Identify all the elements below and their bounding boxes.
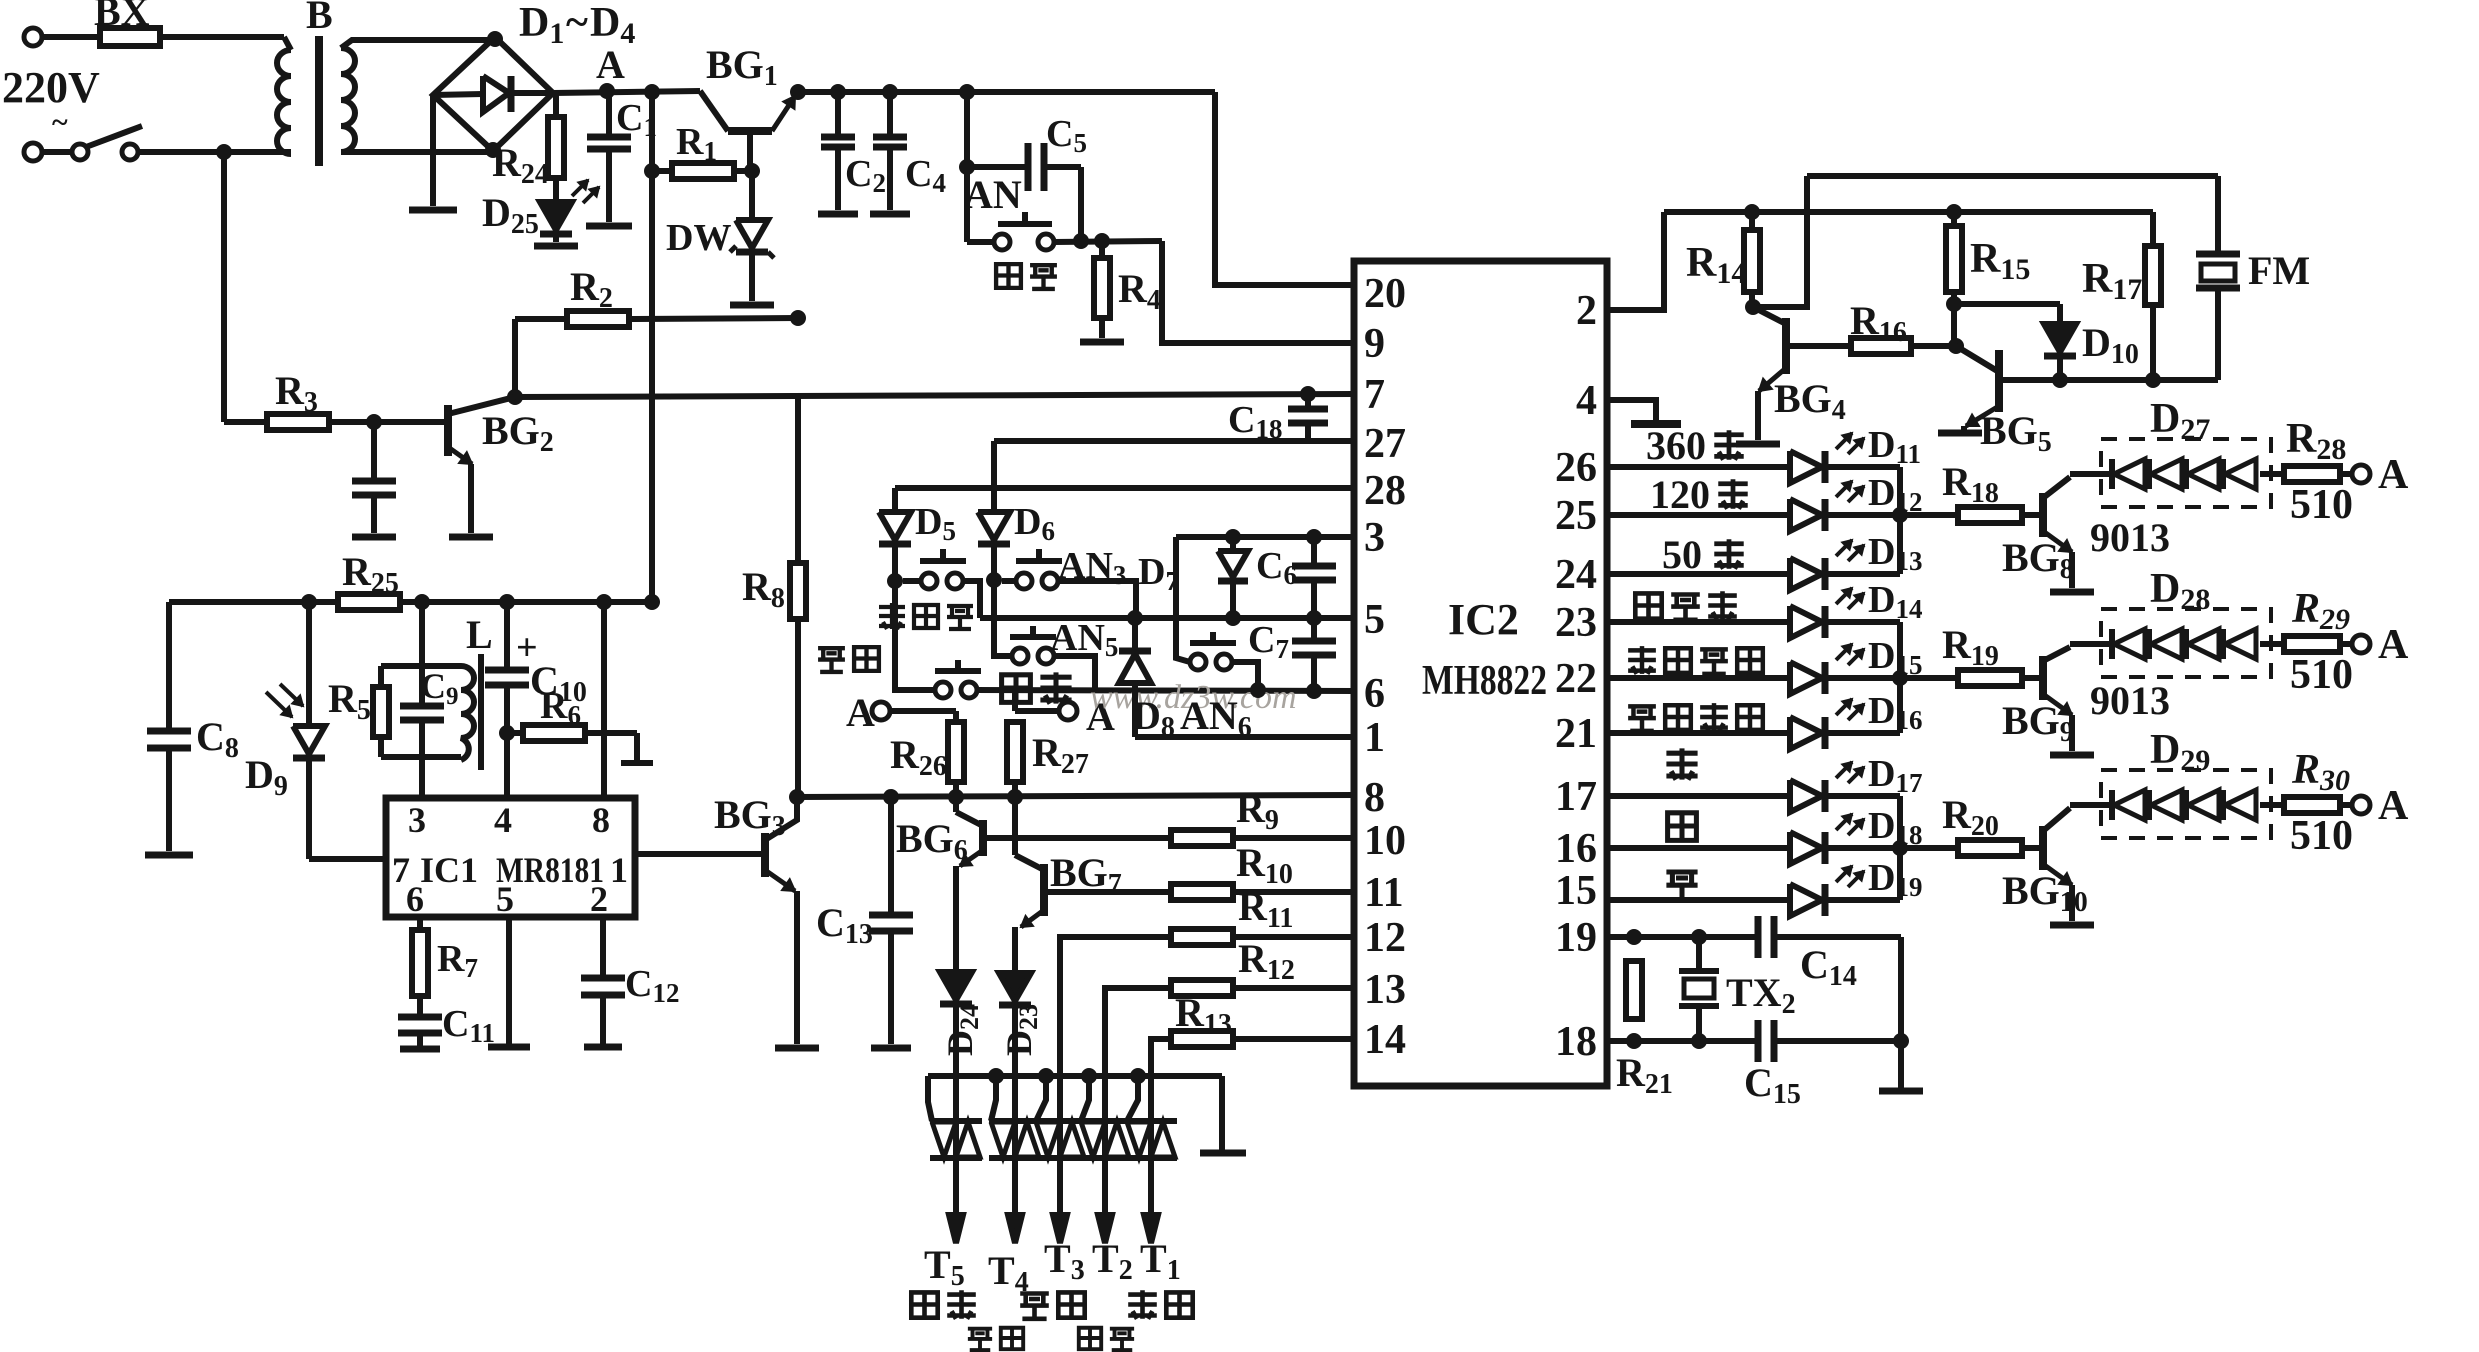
transistor BG1	[728, 127, 772, 135]
svg-text:IC2: IC2	[1448, 595, 1519, 644]
svg-text:A: A	[2378, 622, 2409, 668]
triac T1	[1125, 1118, 1177, 1124]
svg-text:1: 1	[610, 850, 628, 890]
output arrow T1	[1148, 1158, 1154, 1218]
wire R14 to FM rail	[1745, 299, 1761, 315]
transistor BG4	[1753, 307, 1786, 324]
resistor R14	[1744, 204, 1760, 220]
wire rail to pin8 IC1	[596, 594, 612, 610]
svg-text:FM: FM	[2248, 248, 2310, 293]
svg-text:220V: 220V	[2, 63, 100, 112]
capacitor C6	[1306, 529, 1322, 545]
ground R6	[634, 733, 640, 760]
LED D19	[1790, 884, 1822, 916]
crystal FM	[2215, 176, 2221, 252]
svg-text:BX: BX	[94, 0, 150, 34]
svg-text:17: 17	[1555, 774, 1597, 820]
svg-text:23: 23	[1555, 600, 1597, 646]
svg-text:3: 3	[408, 800, 426, 840]
resistor R9	[984, 835, 1171, 841]
svg-text:28: 28	[1364, 468, 1406, 514]
label 摇头	[818, 648, 845, 672]
ground IC1 pin5	[506, 917, 512, 1044]
transistor BG10	[2039, 826, 2047, 870]
node D5 bottom	[887, 573, 903, 589]
resistor R21	[1626, 961, 1642, 1019]
wire pin2	[1607, 212, 1664, 310]
svg-text:21: 21	[1555, 711, 1597, 757]
label 中风	[1079, 1328, 1101, 1349]
resistor R3	[221, 152, 227, 422]
label 睡眠风	[1635, 593, 1661, 618]
tank R5	[414, 594, 430, 610]
resistor R6	[507, 730, 526, 736]
svg-text:7: 7	[1364, 372, 1385, 418]
output arrow T3	[1057, 1158, 1063, 1218]
wire box left vertical	[1176, 537, 1190, 662]
wire pin7 rail	[515, 394, 1354, 397]
LED D15	[1790, 662, 1822, 694]
diode D5	[892, 488, 898, 512]
svg-text:9: 9	[1364, 321, 1385, 367]
ground BG4	[1736, 441, 1780, 448]
node R17 bottom	[2145, 372, 2161, 388]
label 摇头	[968, 1329, 992, 1350]
wire right vertical	[1898, 937, 1904, 1041]
wire +V rail top	[553, 91, 700, 93]
wire pin row	[1607, 571, 1790, 577]
svg-text:MH8822: MH8822	[1422, 658, 1547, 704]
resistor R29	[2260, 641, 2284, 647]
resistor R16	[1851, 338, 1911, 354]
ground BG10	[2050, 922, 2094, 929]
node R15 bottom	[1946, 296, 1962, 312]
terminal A	[2352, 635, 2370, 653]
svg-text:A: A	[2378, 452, 2409, 498]
resistor R27	[1007, 722, 1023, 782]
LED D18	[1790, 832, 1822, 864]
svg-text:510: 510	[2290, 652, 2353, 698]
diode D8	[1132, 618, 1138, 651]
terminal A	[2352, 796, 2370, 814]
label 强周期风	[1628, 706, 1656, 731]
svg-text:15: 15	[1555, 868, 1597, 914]
transistor BG8	[2039, 493, 2047, 537]
wire pin3	[1176, 534, 1354, 540]
wire to pin 9	[1162, 241, 1354, 343]
capacitor C10	[499, 594, 515, 610]
svg-text:2: 2	[590, 879, 608, 919]
ground cap R3	[352, 534, 396, 541]
svg-text:A: A	[846, 690, 875, 735]
diode D6	[991, 441, 997, 512]
wire pin27	[994, 438, 1354, 444]
node pin5-D8	[1127, 610, 1143, 626]
transistor BG3	[761, 833, 769, 877]
resistor R17	[2150, 212, 2156, 246]
svg-text:24: 24	[1555, 552, 1597, 598]
capacitor C7	[1311, 618, 1317, 638]
label 风速	[1002, 675, 1031, 703]
resistor R4	[1099, 241, 1105, 258]
svg-text:5: 5	[1364, 597, 1385, 643]
wire	[43, 149, 72, 155]
svg-text:AN: AN	[964, 172, 1022, 217]
capacitor under R3	[371, 422, 377, 478]
svg-text:25: 25	[1555, 493, 1597, 539]
svg-text:6: 6	[1364, 671, 1385, 717]
wire tank to pin3 IC1	[419, 757, 425, 798]
label 中	[1668, 813, 1697, 841]
resistor R15	[1946, 204, 1962, 220]
ground BG9	[2050, 752, 2094, 759]
capacitor C15	[1755, 1020, 1762, 1062]
capacitor C9	[400, 703, 444, 710]
label 关闭	[996, 264, 1021, 288]
resistor R12	[1105, 988, 1171, 1215]
triac T5 gate	[928, 1076, 932, 1121]
capacitor C14	[1755, 916, 1762, 958]
push button AN3	[1016, 558, 1062, 564]
label 弱风	[1128, 1290, 1157, 1319]
terminal A	[2352, 465, 2370, 483]
triac T3 gate	[1038, 1068, 1054, 1084]
svg-text:120: 120	[1650, 472, 1710, 517]
ground R4	[1080, 339, 1124, 346]
wire C10 to pin4	[504, 733, 510, 798]
svg-text:12: 12	[1364, 915, 1406, 961]
transformer core	[315, 36, 323, 166]
push button 摇头 switch	[895, 581, 935, 690]
wire to D10	[1954, 301, 2060, 307]
wire A to R26	[890, 708, 956, 714]
wire pin row	[1607, 619, 1790, 625]
svg-text:8: 8	[1364, 775, 1385, 821]
bus LED group2	[1897, 622, 1903, 733]
diode D24	[940, 972, 972, 1000]
gate bus	[928, 1073, 1222, 1079]
node D10 bottom	[2052, 372, 2068, 388]
wire rail8	[797, 795, 1354, 797]
wire to pin 20	[1215, 92, 1354, 285]
ground DW	[730, 302, 774, 309]
node bridge bottom	[485, 142, 501, 158]
bus LED group3	[1897, 796, 1903, 900]
ground D25	[534, 243, 578, 250]
node R2-R8 line	[790, 310, 806, 326]
triac T1 gate	[1130, 1068, 1146, 1084]
ground BG5	[1938, 430, 1982, 437]
bridge rectifier D1~D4	[433, 37, 553, 151]
LED D16	[1790, 717, 1822, 749]
svg-text:27: 27	[1364, 421, 1406, 467]
resistor R30	[2260, 802, 2284, 808]
resistor R10	[1045, 889, 1171, 895]
wire D9 to IC1 pin7	[309, 856, 386, 862]
wire secondary top	[341, 40, 492, 48]
label 强	[1666, 872, 1697, 900]
svg-text:1: 1	[1364, 715, 1385, 761]
ground C13	[871, 1045, 911, 1052]
node bridge top	[487, 31, 503, 47]
svg-text:5: 5	[496, 879, 514, 919]
wire A to R27	[1015, 708, 1059, 714]
wire rail FM	[1807, 173, 2218, 179]
push button AN	[964, 167, 970, 242]
capacitor C12	[600, 917, 606, 976]
node D6 bottom	[986, 572, 1002, 588]
triac T4	[989, 1118, 1041, 1124]
capacitor C5	[967, 164, 1028, 170]
push button AN5	[1010, 634, 1056, 640]
ground bus right	[1219, 1076, 1225, 1150]
wire	[138, 149, 291, 155]
svg-text:20: 20	[1364, 271, 1406, 317]
node R1-DW	[744, 163, 760, 179]
ground C8	[145, 852, 193, 859]
push button AN6	[1190, 640, 1236, 646]
resistor R25	[169, 599, 341, 605]
wire C5 right	[1078, 167, 1084, 241]
capacitor C11	[398, 1014, 442, 1021]
wire pin row	[1607, 730, 1790, 736]
triac T3	[1034, 1118, 1086, 1124]
capacitor C18	[1300, 386, 1316, 402]
svg-text:26: 26	[1555, 445, 1597, 491]
svg-text:2: 2	[1576, 288, 1597, 334]
diode string D29	[2070, 802, 2112, 808]
output arrow T4	[1012, 1158, 1018, 1218]
label 自然风	[879, 603, 905, 629]
capacitor C4	[882, 84, 898, 100]
IC2 MH8822 body	[1354, 261, 1607, 1086]
inductor L	[461, 666, 474, 760]
transistor BG5	[1956, 346, 1999, 372]
wire pin19	[1607, 934, 1758, 940]
svg-text:IC1: IC1	[420, 850, 478, 890]
node C10 R6	[499, 725, 515, 741]
triac T4 gate	[988, 1068, 1004, 1084]
svg-text:8: 8	[592, 800, 610, 840]
wire vertical from rail	[644, 84, 660, 100]
wire pin28	[895, 485, 1354, 491]
wire pin row	[1607, 897, 1790, 903]
LED D12	[1790, 499, 1822, 531]
output arrow T2	[1102, 1158, 1108, 1218]
svg-text:18: 18	[1555, 1019, 1597, 1065]
LED D17	[1790, 780, 1822, 812]
resistor R18	[1900, 512, 1957, 518]
svg-text:11: 11	[1364, 870, 1404, 916]
transistor BG7	[1007, 789, 1023, 805]
ground C4	[870, 211, 910, 218]
svg-text:16: 16	[1555, 826, 1597, 872]
label 强风	[1020, 1294, 1049, 1319]
wire pin6	[977, 690, 1354, 691]
resistor R8	[795, 394, 801, 563]
diode D23	[999, 973, 1031, 1001]
svg-text:14: 14	[1364, 1017, 1406, 1063]
node R3-cap	[366, 414, 382, 430]
ground C2	[818, 211, 858, 218]
wire IC1 pin1 to BG3	[635, 851, 765, 857]
fuse BX	[100, 28, 160, 46]
svg-text:510: 510	[2290, 482, 2353, 528]
wire pin row	[1607, 675, 1790, 681]
resistor R26	[953, 711, 959, 722]
terminal top-left	[24, 28, 42, 46]
push button 自然风 switch	[920, 558, 966, 564]
transistor BG9	[2039, 656, 2047, 700]
transformer B secondary	[341, 48, 355, 152]
svg-text:510: 510	[2290, 813, 2353, 859]
svg-text:9013: 9013	[2090, 678, 2170, 723]
LED D25	[553, 178, 559, 202]
wire pin row	[1607, 464, 1790, 470]
triac T2	[1079, 1118, 1131, 1124]
ground BG3	[775, 1045, 819, 1052]
IC1 MR8181	[386, 798, 635, 917]
label 弱	[1666, 748, 1697, 779]
terminal A right	[1059, 702, 1077, 720]
photodiode D9	[301, 594, 317, 610]
svg-text:3: 3	[1364, 515, 1385, 561]
output arrow T5	[953, 1158, 959, 1218]
node R16 right	[1948, 338, 1964, 354]
wire secondary bottom	[341, 149, 490, 155]
wire pin18	[1607, 1038, 1758, 1044]
svg-text:4: 4	[1576, 378, 1597, 424]
diode string D27	[2070, 471, 2112, 477]
wire pin row	[1607, 793, 1790, 799]
diode string D28	[2070, 641, 2112, 647]
wire AN right node	[1054, 241, 1162, 242]
capacitor C1	[606, 92, 612, 135]
resistor R24	[553, 95, 559, 117]
resistor R1	[644, 163, 660, 179]
svg-text:9013: 9013	[2090, 515, 2170, 560]
wire pin row	[1607, 845, 1790, 851]
svg-text:A: A	[596, 42, 625, 87]
triac T5	[930, 1118, 982, 1124]
resistor R20	[1900, 845, 1957, 851]
bus LED group1	[1897, 467, 1903, 574]
svg-text:10: 10	[1364, 818, 1406, 864]
node j1	[216, 144, 232, 160]
wire pin5	[980, 615, 1354, 621]
svg-text:~: ~	[566, 0, 588, 46]
resistor R7	[417, 917, 423, 930]
svg-text:360: 360	[1646, 423, 1706, 468]
resistor R19	[1900, 675, 1957, 681]
wire pin row	[1607, 512, 1790, 518]
svg-text:L: L	[466, 612, 493, 657]
label 照明	[911, 1292, 937, 1317]
label 弱周期风	[1628, 646, 1656, 674]
switch K	[72, 144, 88, 160]
triac T2 gate	[1081, 1068, 1097, 1084]
svg-text:22: 22	[1555, 656, 1597, 702]
svg-text:6: 6	[406, 879, 424, 919]
svg-text:4: 4	[494, 800, 512, 840]
svg-text:19: 19	[1555, 915, 1597, 961]
svg-text:50: 50	[1662, 532, 1702, 577]
resistor R11	[1060, 937, 1171, 1215]
crystal TX2	[1696, 937, 1702, 969]
transistor BG6	[948, 789, 964, 805]
wire rail R14 R15	[1664, 209, 2153, 215]
zener diode DW	[749, 171, 755, 220]
svg-text:A: A	[2378, 783, 2409, 829]
ground C12	[584, 1044, 622, 1051]
wire pin1	[1135, 734, 1354, 740]
terminal A left	[872, 702, 890, 720]
wire AN branch	[959, 84, 975, 100]
ground pin4	[1607, 400, 1656, 420]
terminal bottom-left	[24, 143, 42, 161]
ground BG2	[449, 534, 493, 541]
resistor R2	[512, 319, 518, 397]
ground BG8	[2050, 589, 2094, 596]
transformer B primary	[277, 50, 291, 154]
ground bottom right	[1898, 1041, 1904, 1088]
resistor R13	[1151, 1039, 1171, 1215]
capacitor C2	[830, 84, 846, 100]
svg-text:~: ~	[52, 106, 68, 139]
ground C11	[400, 1046, 440, 1053]
ground C1	[586, 223, 632, 230]
wire	[43, 34, 100, 40]
resistor R28	[2260, 471, 2284, 477]
wire	[160, 34, 284, 40]
capacitor C13	[883, 789, 899, 805]
LED D14	[1790, 606, 1822, 638]
ground bridge left	[430, 95, 436, 206]
diode D7	[1225, 529, 1241, 545]
capacitor C8	[166, 602, 172, 729]
transistor BG2	[444, 405, 452, 456]
LED D13	[1790, 558, 1822, 590]
svg-text:B: B	[306, 0, 333, 37]
diode D10	[2044, 324, 2076, 352]
LED D11	[1790, 451, 1822, 483]
svg-text:DW: DW	[666, 217, 731, 259]
svg-text:13: 13	[1364, 967, 1406, 1013]
